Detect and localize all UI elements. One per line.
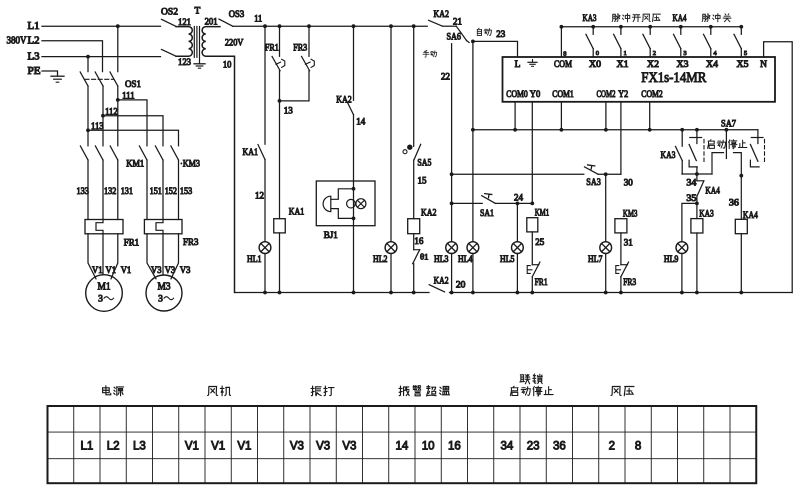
- wire HL3 to bus: [451, 254, 453, 293]
- svg-text:131: 131: [121, 186, 133, 196]
- wire HL5 to bus: [516, 254, 518, 293]
- wire L1 phase: [42, 25, 161, 27]
- node line1-stop divider: [725, 128, 729, 132]
- node bus10 junction: [278, 291, 282, 295]
- node bus11 junction: [412, 24, 416, 28]
- svg-text:152: 152: [165, 186, 177, 196]
- node line1-start: [695, 128, 699, 132]
- wire line1 common: [473, 129, 758, 131]
- switch SA7 stop bridge to 36: [734, 153, 742, 220]
- svg-text:HL3: HL3: [434, 254, 449, 264]
- svg-text:30: 30: [624, 178, 634, 188]
- svg-text:0: 0: [596, 50, 599, 57]
- node COM2-line1: [604, 128, 608, 132]
- label lian-suo interlock: [520, 375, 530, 384]
- switch OS1 pole3 blade: [110, 72, 118, 86]
- svg-text:13: 13: [284, 106, 294, 116]
- alarm BJ1 lamp1: [347, 199, 356, 208]
- wire SA3 line: [452, 173, 584, 175]
- svg-text:V1: V1: [237, 440, 251, 452]
- lamp HL9: [676, 242, 688, 254]
- thermal contact theta1 NC: [414, 249, 420, 251]
- svg-text:HL7: HL7: [588, 254, 603, 264]
- node 113: [86, 128, 90, 132]
- svg-text:8: 8: [635, 440, 641, 452]
- node 23: [471, 40, 475, 44]
- wire KM3 pole3 down: [178, 160, 180, 220]
- svg-text:FR3: FR3: [293, 44, 307, 54]
- svg-text:L1: L1: [80, 440, 93, 452]
- label mai-chong-guan: [702, 13, 710, 21]
- svg-text:FR1: FR1: [265, 44, 279, 54]
- wire HL2 rail: [390, 26, 392, 241]
- contactor coil KM3: [615, 219, 627, 233]
- node bus10 junction: [412, 291, 416, 295]
- label qi-dong start: [708, 140, 715, 149]
- svg-text:21: 21: [453, 17, 462, 27]
- node bus10 junction: [450, 291, 454, 295]
- svg-text:20: 20: [456, 280, 466, 290]
- wire L3 drop to OS1: [87, 57, 89, 72]
- svg-text:KA3: KA3: [699, 209, 714, 219]
- svg-text:L2: L2: [28, 36, 40, 47]
- thermal relay FR3 heater notch: [156, 220, 163, 234]
- wire bus 11: [233, 25, 428, 27]
- svg-text:V3: V3: [290, 440, 304, 452]
- motor M3 circle: [146, 275, 182, 311]
- wire HL4 to bus: [472, 254, 474, 293]
- alarm BJ1 lamp2: [356, 199, 366, 209]
- switch input X3: [679, 25, 683, 29]
- svg-text:112: 112: [105, 106, 118, 116]
- svg-text:14: 14: [356, 117, 366, 127]
- node bus11 junction: [278, 24, 282, 28]
- svg-text:132: 132: [104, 186, 116, 196]
- switch OS1 pole2 blade: [95, 72, 103, 86]
- svg-text:15: 15: [418, 175, 428, 185]
- switch input X4: [709, 25, 713, 29]
- wire theta1 to bus: [413, 264, 415, 293]
- svg-text:COM2: COM2: [641, 90, 663, 100]
- label mai-chong-kai-feng-ya: [612, 13, 620, 21]
- switch SA7 stop divider stub: [725, 130, 727, 159]
- svg-text:31: 31: [624, 238, 633, 248]
- wire KM1 pole1 down: [87, 160, 89, 220]
- node bus10 junction: [695, 291, 699, 295]
- lamp HL5: [512, 242, 524, 254]
- node bus10 junction: [619, 291, 623, 295]
- svg-text:10: 10: [223, 60, 232, 70]
- svg-text:V3: V3: [342, 440, 356, 452]
- svg-text:24: 24: [514, 193, 524, 203]
- switch OS1 pole1 blade: [80, 72, 88, 86]
- relay contact KA3 hold: [681, 130, 683, 146]
- svg-text:FR3: FR3: [623, 278, 636, 288]
- svg-text:V3: V3: [316, 440, 330, 452]
- wire FR1 to node 13: [279, 71, 281, 101]
- svg-text:FR3: FR3: [183, 238, 199, 248]
- wire L2 phase: [42, 41, 103, 72]
- wire rail 22 manual: [451, 44, 453, 242]
- svg-text:KA2: KA2: [434, 10, 450, 20]
- node bus10 junction: [516, 291, 520, 295]
- wire COM0 drop: [514, 102, 516, 130]
- lamp HL2: [385, 242, 397, 254]
- node 24-KM1: [530, 202, 534, 206]
- wire HL5 drop: [516, 203, 518, 241]
- motor M1 circle: [86, 275, 123, 312]
- svg-text:N: N: [760, 60, 767, 70]
- svg-text:1: 1: [624, 50, 627, 57]
- switch SA7 stop linkage dashed: [764, 139, 766, 162]
- node bus11 junction: [263, 24, 267, 28]
- wire 15: [413, 160, 415, 219]
- wire OS1 pole1 down: [87, 86, 89, 146]
- svg-text:113: 113: [91, 121, 104, 131]
- switch OS1 linkage dashed: [85, 78, 114, 80]
- terminal strip table: [48, 406, 757, 483]
- wire COM2 drop: [605, 102, 607, 130]
- lamp HL3: [446, 242, 458, 254]
- wire Y2 drop: [620, 102, 622, 175]
- svg-text:OS2: OS2: [161, 7, 178, 17]
- switch SA1 handle: [485, 194, 492, 198]
- svg-text:KA4: KA4: [705, 186, 720, 196]
- selector SA6 blade: [456, 26, 466, 40]
- node 111: [116, 98, 120, 102]
- node bus10 junction: [389, 291, 393, 295]
- svg-text:151: 151: [150, 186, 162, 196]
- svg-text:3: 3: [158, 295, 163, 305]
- label feng-ji fan: [208, 387, 218, 396]
- relay coil KA2: [408, 219, 420, 234]
- node COM bus: [560, 25, 564, 29]
- svg-text:Y0: Y0: [530, 90, 541, 100]
- transformer T primary: [176, 27, 192, 57]
- switch input X0: [591, 25, 595, 29]
- svg-text:36: 36: [729, 197, 740, 207]
- node 112: [101, 114, 105, 118]
- svg-text:SA7: SA7: [721, 120, 736, 130]
- label qi-dong-ting-zhi start stop: [510, 386, 518, 395]
- thermal contact FR1b NC: [532, 264, 539, 266]
- relay contact KA2 upper: [353, 26, 355, 100]
- wire FR1b to bus: [531, 277, 533, 293]
- wire FR3b to bus: [620, 277, 622, 293]
- switch OS2 pole1: [162, 19, 177, 26]
- wire HL7 drop: [605, 174, 607, 241]
- svg-text:OS1: OS1: [125, 80, 141, 90]
- wire 16: [413, 234, 415, 250]
- node L3 junction: [86, 55, 90, 59]
- alarm BJ1 node bottom: [352, 217, 356, 221]
- alarm BJ1 node top: [352, 187, 356, 191]
- svg-text:22: 22: [441, 72, 450, 82]
- switch SA7 stop contact: [757, 130, 759, 144]
- svg-text:36: 36: [553, 440, 566, 452]
- switch input X5: [739, 25, 743, 29]
- wire 21: [443, 25, 457, 27]
- svg-text:SA5: SA5: [417, 158, 431, 168]
- wire 13 to KA1 coil: [279, 101, 281, 219]
- node COM2b-line1: [648, 128, 652, 132]
- svg-text:·KM3: ·KM3: [180, 159, 200, 169]
- svg-text:HL9: HL9: [664, 254, 679, 264]
- wire 31: [620, 233, 622, 265]
- svg-text:KA2: KA2: [421, 209, 437, 219]
- wire 23 to PLC L: [473, 41, 518, 57]
- contactor KM3 pole3 blade: [171, 146, 179, 160]
- svg-text:25: 25: [535, 237, 545, 247]
- wire KA1 coil to bus: [279, 233, 281, 293]
- wire N to right rail: [764, 42, 793, 293]
- node bus10 junction: [471, 291, 475, 295]
- svg-text:220V: 220V: [225, 39, 244, 49]
- label manual shou-dong: [423, 51, 429, 58]
- contactor KM3 pole2 blade: [155, 146, 163, 160]
- wire 113 jog to KM3: [88, 130, 179, 146]
- PLC FX1s-14MR box: [503, 57, 776, 102]
- svg-text:V1: V1: [185, 440, 199, 452]
- svg-text:SA6: SA6: [447, 32, 462, 42]
- wire KA4 coil to bus: [740, 234, 742, 293]
- wire L3 phase: [42, 56, 161, 58]
- contactor KM3 pole1 blade: [139, 146, 147, 160]
- node bus10 junction: [530, 291, 534, 295]
- node bus10 junction: [352, 291, 356, 295]
- thermal relay FR1 box: [85, 220, 123, 234]
- svg-text:12: 12: [255, 191, 264, 201]
- svg-text:COM0: COM0: [506, 90, 528, 100]
- wire FR3 to node 13: [280, 71, 310, 101]
- node COM0-line1: [513, 128, 517, 132]
- wire M1 feeds: [88, 234, 96, 279]
- svg-text:KA3: KA3: [583, 14, 597, 24]
- wire L1 drop to OS1: [117, 26, 119, 71]
- switch input X2: [648, 25, 652, 29]
- wire HL9 jog: [682, 203, 697, 241]
- relay contact KA2 bus: [429, 20, 443, 26]
- svg-text:KA1: KA1: [243, 148, 259, 158]
- label feng-ya wind pressure: [611, 387, 621, 396]
- label bao-jing-chao-wen alarm overtemp: [399, 386, 409, 396]
- svg-text:L: L: [515, 60, 521, 70]
- node 35: [695, 202, 699, 206]
- svg-text:HL1: HL1: [247, 254, 262, 264]
- svg-text:35: 35: [686, 193, 697, 203]
- wire SA1 line: [452, 202, 483, 204]
- wire OS1 pole2 down: [102, 86, 104, 146]
- switch SA1 blade: [482, 196, 496, 204]
- svg-text:KM1: KM1: [535, 209, 550, 219]
- lamp HL7: [600, 242, 612, 254]
- wire BJ1 to bus: [353, 226, 355, 293]
- svg-text:201: 201: [205, 17, 218, 27]
- wire KM3 pole1 down: [146, 160, 148, 220]
- svg-text:HL5: HL5: [500, 254, 515, 264]
- node line1-KA3: [680, 128, 684, 132]
- svg-text:V1: V1: [121, 265, 132, 275]
- svg-text:Y2: Y2: [618, 90, 628, 100]
- svg-text:380V: 380V: [7, 36, 28, 47]
- svg-text:14: 14: [395, 440, 408, 452]
- svg-text:133: 133: [77, 186, 90, 196]
- svg-text:BJ1: BJ1: [324, 231, 338, 241]
- svg-text:KM1: KM1: [126, 159, 144, 169]
- label qi-dong ting-zhi: [729, 140, 737, 149]
- svg-text:V1: V1: [211, 440, 225, 452]
- svg-text:COM1: COM1: [552, 90, 574, 100]
- wire COM drop: [560, 27, 562, 57]
- svg-text:M1: M1: [98, 281, 111, 292]
- svg-text:COM2: COM2: [597, 90, 616, 100]
- svg-text:23: 23: [496, 29, 506, 39]
- relay coil KA1: [274, 219, 286, 233]
- wire COM2b drop: [649, 102, 651, 130]
- svg-text:FX1s-14MR: FX1s-14MR: [641, 70, 706, 86]
- wire KM1 pole2 down: [102, 160, 104, 220]
- lamp HL4: [467, 242, 479, 254]
- node bus11 junction: [307, 24, 311, 28]
- node 13: [278, 99, 282, 103]
- switch input X1: [619, 25, 623, 29]
- relay coil KA4: [735, 219, 747, 233]
- svg-text:11: 11: [254, 13, 262, 23]
- svg-text:PE: PE: [28, 66, 41, 77]
- svg-text:X2: X2: [647, 60, 659, 70]
- node bus11 junction: [389, 24, 393, 28]
- switch OS3 blade: [219, 19, 233, 26]
- svg-text:HL2: HL2: [373, 254, 388, 264]
- switch SA3 blade: [585, 167, 599, 174]
- svg-text:HL4: HL4: [458, 254, 473, 264]
- svg-text:KA2: KA2: [336, 95, 352, 105]
- svg-text:KM3: KM3: [623, 210, 638, 220]
- switch OS2 pole2: [162, 49, 177, 56]
- node L1 junction: [116, 24, 120, 28]
- wire HL7 to bus: [605, 254, 607, 293]
- svg-text:SA3: SA3: [586, 178, 601, 188]
- svg-text:111: 111: [122, 91, 135, 101]
- thermal contact FR3 NC: [308, 26, 310, 56]
- svg-text:3: 3: [98, 295, 103, 305]
- node 30-HL7: [604, 172, 608, 176]
- svg-text:4: 4: [713, 50, 717, 57]
- wire HL2 to bus: [390, 254, 392, 293]
- svg-text:L1: L1: [28, 21, 40, 32]
- node 24-HL5: [516, 202, 520, 206]
- svg-text:X5: X5: [737, 60, 749, 70]
- svg-text:COM: COM: [554, 60, 572, 70]
- alarm BJ1 horn: [331, 189, 354, 219]
- svg-text:V3: V3: [180, 265, 191, 275]
- wire COM1 drop: [560, 102, 562, 130]
- node rail23-line1: [471, 128, 475, 132]
- label dian-yuan power: [103, 386, 111, 395]
- svg-text:10: 10: [422, 440, 435, 452]
- svg-text:FR1: FR1: [535, 278, 548, 288]
- node rail22-line2: [450, 172, 454, 176]
- wire bus 20: [450, 292, 793, 294]
- node bus10 junction: [680, 291, 684, 295]
- wire 112 jog to KM3: [103, 116, 163, 146]
- svg-text:KA3: KA3: [661, 151, 676, 161]
- svg-text:L3: L3: [28, 52, 40, 63]
- thermal contact FR1 NC: [279, 26, 281, 56]
- wire 14 to BJ1: [353, 115, 355, 181]
- svg-text:5: 5: [744, 50, 747, 57]
- contactor KM1 pole3 blade: [110, 146, 118, 160]
- wire bus 10: [236, 292, 429, 294]
- svg-text:SA1: SA1: [480, 209, 494, 219]
- switch SA7 start linkage dashed: [703, 139, 705, 162]
- wire M3 feeds: [147, 234, 156, 279]
- ground PE: [51, 75, 64, 77]
- relay coil KA3: [691, 219, 703, 233]
- wire node 34 bar: [682, 173, 712, 175]
- thermal contact FR3b NC: [621, 264, 628, 266]
- PLC ground symbol: [532, 60, 534, 63]
- node 36: [739, 174, 743, 178]
- alarm BJ1 wire through: [353, 181, 355, 226]
- wire 30 link: [598, 173, 621, 175]
- wire 12: [264, 160, 266, 242]
- svg-text:KA1: KA1: [289, 208, 305, 218]
- svg-text:L3: L3: [133, 440, 146, 452]
- wire 35: [696, 196, 698, 219]
- switch SA5: [413, 26, 415, 146]
- svg-text:121: 121: [178, 17, 191, 27]
- contactor coil KM1: [527, 218, 538, 232]
- switch SA3 handle: [588, 165, 595, 169]
- lamp HL1: [259, 242, 271, 254]
- transformer T core: [193, 27, 195, 58]
- alarm BJ1 box: [316, 181, 375, 226]
- wire KM1 pole3 down: [117, 160, 119, 220]
- svg-text:KA2: KA2: [434, 277, 449, 287]
- contactor KM1 pole2 blade: [95, 146, 103, 160]
- svg-text:T: T: [195, 7, 201, 17]
- svg-text:16: 16: [448, 440, 461, 452]
- svg-text:3: 3: [683, 50, 686, 57]
- svg-text:X3: X3: [677, 60, 689, 70]
- svg-text:θ1: θ1: [420, 251, 429, 261]
- wire Y0 drop: [531, 102, 533, 204]
- svg-text:16: 16: [414, 236, 424, 246]
- svg-text:X0: X0: [589, 60, 601, 70]
- svg-text:KA4: KA4: [743, 211, 758, 221]
- wire HL1 to bus: [264, 254, 266, 293]
- switch SA7 start bridge mark: [712, 153, 724, 174]
- wire PE: [42, 71, 58, 76]
- svg-text:L2: L2: [107, 440, 120, 452]
- svg-text:2: 2: [609, 440, 615, 452]
- node bus11 junction: [352, 24, 356, 28]
- svg-text:123: 123: [178, 57, 191, 67]
- label auto zi-dong: [477, 28, 481, 35]
- svg-text:X4: X4: [706, 60, 718, 70]
- relay contact KA4 NC: [696, 174, 698, 181]
- svg-text:OS3: OS3: [229, 10, 245, 20]
- thermal relay FR3 box: [144, 220, 182, 234]
- svg-text:2: 2: [653, 50, 656, 57]
- label zhen-da rap: [311, 386, 321, 396]
- thermal relay FR1 heater notch: [96, 220, 103, 234]
- wire 24: [495, 202, 532, 204]
- svg-text:34: 34: [686, 178, 697, 188]
- node COM1-line1: [560, 128, 564, 132]
- relay contact KA1: [264, 26, 266, 144]
